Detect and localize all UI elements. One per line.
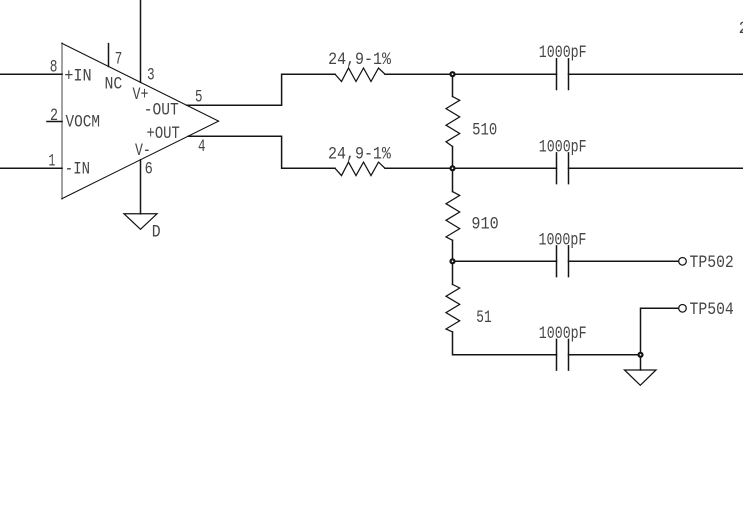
pin 1 -IN wire [0,167,62,169]
svg-text:2: 2 [739,19,743,39]
wire node C to cap C3 [453,260,557,262]
wire C3 to TP502 [569,260,679,262]
wire R4 to node C [452,240,454,261]
svg-text:-IN: -IN [65,159,90,179]
ground D below op-amp [124,214,157,230]
junction node D [639,353,643,357]
wire R2 to cap C2 [385,167,557,169]
wire R3 to node B [452,147,454,169]
svg-text:NC: NC [105,74,123,94]
svg-text:TP502: TP502 [690,253,734,273]
wire R1 to cap C1 [385,73,557,75]
wire C4 to node D [569,354,641,356]
svg-text:7: 7 [115,50,123,70]
wire node B down [452,168,454,191]
svg-text:1: 1 [49,152,56,172]
pin 6 V- wire down to ground [140,160,142,214]
svg-text:VOCM: VOCM [66,112,101,132]
pin 7 NC stub [108,44,110,67]
svg-text:1000pF: 1000pF [539,230,587,250]
wire R5 to row4 corner [453,332,557,355]
svg-text:2: 2 [50,106,58,126]
capacitor C3 1000pF [557,246,569,277]
svg-text:D: D [152,223,161,243]
wire node D to ground [640,355,642,370]
svg-text:24,9-1%: 24,9-1% [328,144,391,164]
svg-text:V-: V- [135,141,151,161]
junction node C [451,259,455,263]
wire pin4 +OUT to jog [188,136,335,168]
wire node A down [452,74,454,96]
junction node A [451,72,455,76]
wire pin5 -OUT to jog [187,74,335,105]
wire node C down [452,261,454,284]
test point TP504 circle [679,305,687,313]
svg-text:+OUT: +OUT [147,124,180,144]
op-amp U1 triangle body [62,43,219,198]
svg-text:6: 6 [145,160,153,180]
resistor R4 910 [446,192,460,241]
svg-text:51: 51 [476,308,491,328]
svg-text:1000pF: 1000pF [539,137,587,157]
svg-text:5: 5 [195,88,203,108]
wire C1 right to edge [569,73,743,75]
ground at node D [625,370,657,385]
svg-text:3: 3 [147,65,155,85]
svg-text:510: 510 [472,121,497,141]
capacitor C2 1000pF [557,153,569,184]
svg-text:1000pF: 1000pF [539,324,587,344]
wire C2 right to edge [569,167,743,169]
pin 3 V+ wire to top edge [140,0,142,82]
test point TP502 circle [679,258,687,266]
svg-text:TP504: TP504 [690,300,734,320]
pin 2 VOCM stub [47,121,62,123]
svg-text:910: 910 [471,214,498,234]
svg-text:+IN: +IN [64,67,92,87]
junction node B [451,166,455,170]
svg-text:4: 4 [198,137,206,157]
svg-text:1000pF: 1000pF [539,43,587,63]
capacitor C4 1000pF [557,339,569,370]
capacitor C1 1000pF [557,59,569,90]
resistor R1 24.9-1% (top) [335,68,385,82]
svg-text:24,9-1%: 24,9-1% [328,50,391,70]
resistor R3 510 [446,97,460,147]
pin 8 +IN wire [0,73,62,75]
resistor R5 51 [446,284,460,332]
wire TP504 to node D [641,308,679,355]
resistor R2 24.9-1% (bottom) [335,162,385,176]
svg-text:-OUT: -OUT [144,100,179,120]
svg-text:8: 8 [50,57,58,77]
